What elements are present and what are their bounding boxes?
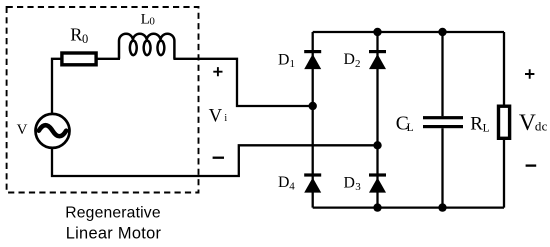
resistor RL column wire lower bbox=[503, 140, 505, 208]
diode D4 bbox=[304, 173, 321, 192]
diode D1 bbox=[304, 50, 321, 69]
svg-text:R: R bbox=[470, 113, 483, 134]
wire: source top up to resistor bbox=[52, 59, 61, 114]
svg-text:1: 1 bbox=[290, 58, 296, 70]
AC source V (circle with sine) bbox=[36, 114, 70, 148]
dashed enclosure box (Regenerative Linear Motor) bbox=[7, 7, 199, 193]
bridge left column wire bbox=[312, 32, 314, 208]
label + (Vdc) bbox=[525, 69, 534, 78]
inductor L0 bbox=[119, 34, 174, 59]
junction node Vi+ at left column bbox=[309, 102, 317, 110]
resistor RL column wire upper bbox=[503, 32, 505, 105]
capacitor CL bbox=[423, 116, 463, 128]
bridge right column wire bbox=[376, 32, 378, 208]
resistor R0 bbox=[62, 53, 96, 65]
svg-text:2: 2 bbox=[355, 58, 361, 70]
wire: inductor to Vi+ step down to bridge left mid node bbox=[173, 59, 312, 106]
svg-text:3: 3 bbox=[355, 181, 361, 193]
svg-text:D: D bbox=[278, 51, 289, 68]
svg-text:L: L bbox=[407, 122, 414, 134]
resistor RL bbox=[499, 106, 510, 138]
junction dot bottom rail at CL column bbox=[438, 203, 446, 211]
svg-text:V: V bbox=[17, 122, 28, 138]
label - (Vdc) bbox=[526, 164, 537, 166]
svg-text:D: D bbox=[344, 51, 355, 68]
wire: resistor to inductor bbox=[96, 58, 120, 60]
capacitor CL column wire lower bbox=[441, 128, 443, 207]
svg-text:dc: dc bbox=[535, 118, 548, 133]
svg-text:4: 4 bbox=[289, 180, 295, 192]
bridge top rail bbox=[313, 31, 504, 33]
label - (Vi) bbox=[213, 157, 224, 159]
diode D3 bbox=[369, 173, 386, 192]
junction dot top rail at D2 column bbox=[373, 28, 381, 36]
wire: source bottom, bottom run, step up to bridge right mid node bbox=[52, 145, 378, 176]
label + (Vi) bbox=[213, 67, 222, 76]
svg-text:V: V bbox=[209, 106, 223, 127]
junction dot bottom rail at D3 column bbox=[373, 203, 381, 211]
capacitor CL column wire upper bbox=[441, 32, 443, 116]
svg-text:0: 0 bbox=[149, 16, 155, 28]
bridge bottom rail bbox=[313, 206, 504, 208]
svg-text:L: L bbox=[483, 123, 490, 135]
svg-text:D: D bbox=[278, 174, 289, 191]
svg-text:V: V bbox=[519, 110, 536, 136]
diode D2 bbox=[369, 50, 386, 69]
junction node Vi- at right column bbox=[373, 141, 381, 149]
svg-text:Linear Motor: Linear Motor bbox=[66, 224, 162, 242]
junction dot top rail at CL column bbox=[438, 28, 446, 36]
svg-text:0: 0 bbox=[82, 32, 88, 46]
svg-text:D: D bbox=[344, 175, 355, 192]
svg-text:Regenerative: Regenerative bbox=[65, 205, 161, 222]
svg-text:i: i bbox=[224, 113, 227, 124]
